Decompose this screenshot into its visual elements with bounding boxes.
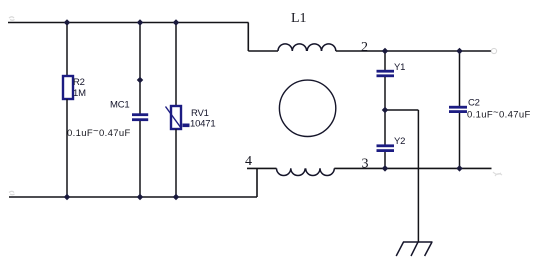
motor circle M (279, 80, 335, 136)
wire bottom-right rail (334, 167, 491, 169)
svg-text:RV1: RV1 (191, 108, 209, 119)
varistor RV1 (166, 106, 190, 129)
wire R2 branch upper (66, 23, 68, 77)
junction dot RV1 bottom (173, 194, 180, 201)
wire Y2 lower (384, 152, 386, 168)
inductor L2 bottom winding (277, 168, 335, 175)
svg-text:Y1: Y1 (394, 62, 405, 73)
svg-text:Y2: Y2 (394, 136, 405, 147)
inductor L1 (278, 44, 336, 51)
svg-text:10471: 10471 (190, 119, 215, 130)
wire top-right rail (336, 50, 492, 52)
wire node4 stub (247, 167, 277, 169)
wire Y1 branch upper (384, 51, 386, 70)
wire RV1 branch upper (175, 23, 177, 107)
wire R2 branch lower (66, 99, 68, 197)
wire top step-down (247, 23, 249, 52)
junction dot MC1 top (137, 19, 144, 26)
junction dot R2 top (64, 19, 71, 26)
svg-text:L1: L1 (291, 11, 307, 26)
svg-text:2: 2 (361, 40, 368, 55)
wire top-mid segment into L1 (248, 50, 278, 52)
junction dot node3 Y2 (382, 165, 389, 172)
artifact smudge bottom-left (9, 191, 15, 195)
artifact smudge top-left (9, 17, 15, 21)
artifact circle top-right (491, 48, 496, 53)
wire Y mid segment (384, 77, 386, 145)
svg-text:C2: C2 (468, 98, 480, 109)
svg-text:0.1uF~0.47uF: 0.1uF~0.47uF (67, 126, 131, 140)
wire MC1 branch upper (139, 23, 141, 114)
wire RV1 branch lower (175, 129, 177, 197)
capacitor C2 (449, 106, 467, 113)
ground (396, 242, 432, 256)
svg-text:0.1uF~0.47uF: 0.1uF~0.47uF (467, 107, 531, 121)
wire MC1 branch lower (139, 121, 141, 197)
wire bottom riser (256, 168, 258, 197)
svg-text:1M: 1M (73, 88, 86, 99)
capacitor Y1 (377, 70, 395, 77)
wire top-left rail (8, 22, 249, 24)
wire ground branch horizontal (385, 109, 418, 111)
svg-text:MC1: MC1 (110, 100, 129, 111)
capacitor MC1 (132, 113, 148, 121)
wire bottom-left rail (9, 196, 257, 198)
wire ground branch vertical (417, 110, 419, 242)
junction dot MC1 bottom (137, 194, 144, 201)
junction dot R2 bottom (64, 194, 71, 201)
junction dot node2 Y1 (382, 48, 389, 55)
artifact smudge bottom-right (493, 172, 502, 176)
capacitor Y2 (377, 144, 395, 152)
junction dot on MC1 branch (137, 77, 144, 84)
svg-text:R2: R2 (73, 77, 85, 88)
junction dot node2 C2 (456, 48, 463, 55)
svg-text:4: 4 (245, 154, 252, 169)
junction dot Y mid (382, 107, 389, 114)
resistor R2 (63, 76, 73, 99)
wire C2 branch upper (459, 51, 461, 106)
wire C2 branch lower (459, 113, 461, 168)
junction dot node3 C2 (456, 165, 463, 172)
junction dot RV1 top (173, 19, 180, 26)
svg-text:3: 3 (362, 157, 369, 172)
